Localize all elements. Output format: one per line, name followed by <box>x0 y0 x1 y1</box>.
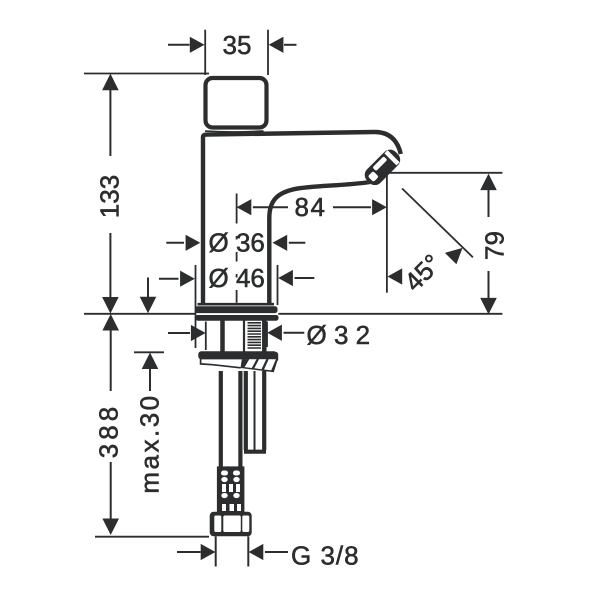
dim oe36 label <box>209 227 265 257</box>
svg-text:45°: 45° <box>398 248 447 297</box>
dim oe32 left arrow <box>168 325 206 341</box>
shank inner line <box>243 321 245 352</box>
washer sloping line <box>213 365 241 368</box>
dim 133 label <box>95 175 125 218</box>
deck line right <box>278 313 502 315</box>
body base joint line <box>198 303 275 306</box>
washer bar <box>198 351 278 362</box>
dim 388 label <box>94 403 124 458</box>
ref line aerator (79/84 top) <box>387 172 503 174</box>
right tube <box>244 371 266 452</box>
dim G38 label <box>291 541 360 571</box>
washer left slot edge <box>201 359 213 365</box>
dim oe36 right arrow <box>273 235 306 251</box>
dim max30 tick <box>134 351 164 353</box>
flange collar <box>196 315 279 321</box>
shank wall left <box>220 321 225 352</box>
dim oe32 label <box>307 320 371 350</box>
washer hatched wedge <box>241 359 278 372</box>
dim max30 label <box>135 393 165 493</box>
dim oe46 right arrow <box>278 270 314 286</box>
dim 79 label <box>480 231 510 260</box>
dim 45deg diagonal line <box>402 189 473 258</box>
svg-text:Ø 46: Ø 46 <box>209 263 265 293</box>
aerator vertical extension <box>386 173 388 293</box>
aerator <box>361 146 403 188</box>
dim 35 label <box>223 30 252 60</box>
dim G38 line right <box>249 544 288 560</box>
dim 84 line <box>237 199 387 215</box>
dim 45deg diagonal arrowhead <box>445 248 463 264</box>
oe32 extension line right <box>266 322 268 348</box>
dim 35 extension left <box>204 30 206 75</box>
left pipe <box>221 371 241 467</box>
ref line bottom (388) <box>95 536 209 538</box>
svg-text:Ø 36: Ø 36 <box>209 227 265 257</box>
oe32 extension line left <box>205 322 207 351</box>
dim oe46 left arrow <box>159 271 195 287</box>
dim 388 line <box>102 314 119 535</box>
dim 84 label <box>295 192 327 222</box>
dim 35 line left <box>168 37 205 53</box>
dim 133 line <box>102 74 119 314</box>
dim oe46 label <box>209 263 265 293</box>
deck line left <box>84 313 195 315</box>
flange plate <box>195 306 278 313</box>
dim max30 upper arrow <box>140 278 157 314</box>
dim oe46 ext right <box>277 265 279 305</box>
svg-text:133: 133 <box>95 175 125 218</box>
dim oe46 ext left <box>195 265 197 348</box>
dim 45deg left arrowhead <box>388 268 403 284</box>
svg-text:G 3/8: G 3/8 <box>291 541 360 571</box>
dim 45deg label <box>398 248 447 297</box>
svg-text:388: 388 <box>94 403 124 458</box>
dim 35 line right <box>269 37 297 53</box>
dim oe36 left arrow <box>166 235 200 251</box>
hex nut <box>210 512 252 537</box>
dim 35 extension right <box>267 30 269 75</box>
dim oe32 right arrow <box>267 325 304 341</box>
ref line top (133) <box>84 73 209 75</box>
knob joint lens <box>205 131 264 132</box>
svg-text:35: 35 <box>223 30 252 60</box>
svg-text:max.30: max.30 <box>135 393 165 493</box>
dim G38 line left <box>177 544 215 560</box>
dim 79 line <box>480 174 497 315</box>
svg-text:Ø 3 2: Ø 3 2 <box>307 320 371 350</box>
svg-text:79: 79 <box>480 231 510 260</box>
nut extension line left <box>215 536 217 566</box>
knob <box>206 78 267 128</box>
nut extension line right <box>247 536 249 566</box>
centerline <box>236 194 238 303</box>
corrugated connector <box>217 466 245 512</box>
body outline <box>203 132 401 303</box>
shank thread hatching <box>248 323 262 348</box>
shank wall right <box>262 321 267 352</box>
svg-text:84: 84 <box>295 192 327 222</box>
dim max30 lower arrow <box>142 353 159 392</box>
